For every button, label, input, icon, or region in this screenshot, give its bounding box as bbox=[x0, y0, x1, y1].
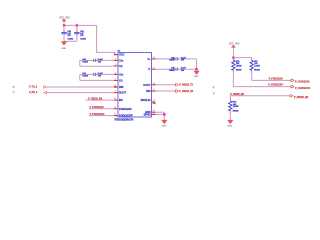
svg-text:P_RX_2: P_RX_2 bbox=[29, 92, 38, 94]
junction at C43 branch bbox=[63, 24, 65, 26]
svg-text:R70: R70 bbox=[236, 61, 239, 63]
svg-text:1/16W: 1/16W bbox=[236, 66, 242, 68]
svg-text:16V: 16V bbox=[80, 35, 84, 37]
svg-text:R0402: R0402 bbox=[233, 109, 239, 112]
svg-text:P_FORCEON: P_FORCEON bbox=[295, 82, 310, 84]
svg-text:?: ? bbox=[213, 86, 215, 89]
svg-text:GND: GND bbox=[194, 76, 199, 78]
wire ROUT to P_RX_2 bbox=[47, 91, 114, 95]
wire P_RS232_EN to EN pin bbox=[86, 98, 114, 102]
wire cap bottoms join bbox=[64, 39, 77, 43]
wire R72 to ground bbox=[228, 113, 232, 120]
capacitor C45 (V-) bbox=[156, 67, 175, 71]
svg-text:12: 12 bbox=[114, 107, 116, 109]
wire R70 lead bbox=[231, 73, 235, 87]
ground GND (right) bbox=[227, 120, 233, 124]
svg-text:16V: 16V bbox=[67, 35, 71, 37]
capacitor C41 (C2+/C2- flying cap) bbox=[96, 72, 114, 76]
wire FORCEOFF pull-up bbox=[233, 85, 291, 89]
svg-text:C43: C43 bbox=[67, 30, 70, 33]
capacitor C42 bbox=[75, 25, 79, 32]
svg-text:16: 16 bbox=[13, 86, 15, 88]
svg-text:P_RS232_EN: P_RS232_EN bbox=[294, 97, 309, 99]
svg-text:TRS3232EIRGTR: TRS3232EIRGTR bbox=[114, 118, 133, 121]
svg-text:C40: C40 bbox=[82, 58, 85, 61]
wire R71 lead bbox=[250, 73, 254, 81]
U1 DIN input arrow bbox=[115, 86, 118, 88]
op-amp U1 transceiver box bbox=[118, 53, 152, 118]
svg-text:4: 4 bbox=[153, 66, 154, 69]
svg-text:C41: C41 bbox=[82, 72, 85, 75]
ground GND (top-left) bbox=[61, 41, 67, 45]
svg-text:0.1uF: 0.1uF bbox=[181, 68, 187, 70]
svg-text:P_TX_2: P_TX_2 bbox=[29, 86, 38, 88]
svg-text:19: 19 bbox=[114, 98, 116, 100]
svg-text:C0402: C0402 bbox=[80, 38, 86, 41]
svg-text:10K: 10K bbox=[236, 63, 240, 65]
svg-text:1/16W: 1/16W bbox=[233, 106, 239, 108]
no-connect X on INVALID pin bbox=[153, 101, 156, 104]
svg-text:C42: C42 bbox=[80, 30, 83, 33]
svg-text:10K: 10K bbox=[233, 104, 237, 106]
svg-text:0.1uF: 0.1uF bbox=[181, 57, 187, 59]
svg-text:16V: 16V bbox=[98, 76, 102, 78]
U1 left pin stubs + pin numbers + labels bbox=[114, 52, 118, 56]
wire VCC_3V3 rail (top-left) bbox=[64, 23, 97, 27]
wire FORCEON pull-up bbox=[252, 78, 291, 82]
svg-text:R72: R72 bbox=[233, 102, 236, 104]
junction at C42 branch bbox=[76, 24, 78, 26]
svg-text:P_FORCEOFF: P_FORCEOFF bbox=[295, 88, 311, 90]
wire P_FORCEON to FORCEON pin bbox=[89, 107, 114, 111]
wire EPAD pin to drop bbox=[156, 112, 165, 116]
svg-text:R71: R71 bbox=[254, 61, 257, 63]
svg-text:10K: 10K bbox=[254, 63, 258, 65]
off-page connector P_RS232_EN bbox=[290, 95, 293, 97]
ground GND (V+/V- caps) bbox=[193, 71, 199, 75]
wire GND pin to drop bbox=[156, 110, 165, 114]
capacitor C44 (V+) bbox=[156, 57, 175, 61]
svg-text:16V: 16V bbox=[181, 60, 185, 62]
off-page connector P_RS232_RX bbox=[176, 90, 179, 92]
svg-text:0.1uF: 0.1uF bbox=[98, 59, 104, 61]
ground GND (U1) bbox=[161, 120, 167, 124]
svg-text:GND: GND bbox=[61, 48, 66, 50]
svg-text:9: 9 bbox=[115, 91, 116, 93]
svg-text:16V: 16V bbox=[181, 70, 185, 72]
svg-text:VCC_3V3: VCC_3V3 bbox=[229, 43, 240, 46]
wire DOUT out bbox=[156, 83, 176, 87]
svg-text:14: 14 bbox=[153, 82, 155, 85]
svg-text:13: 13 bbox=[114, 114, 116, 116]
capacitor C40 (C1+/C1- flying cap) bbox=[96, 58, 114, 62]
svg-text:15: 15 bbox=[153, 57, 155, 59]
wire GND drop down bbox=[162, 112, 166, 120]
svg-text:P_RS232_TX: P_RS232_TX bbox=[179, 85, 193, 87]
svg-text:17: 17 bbox=[13, 92, 15, 94]
svg-text:1/16W: 1/16W bbox=[254, 66, 260, 68]
svg-text:16V: 16V bbox=[98, 62, 102, 64]
off-page connector P_FORCEON bbox=[291, 79, 294, 81]
svg-text:C0402: C0402 bbox=[67, 38, 73, 41]
svg-text:R0402: R0402 bbox=[254, 69, 260, 72]
junction at pull-up rail bbox=[232, 56, 234, 58]
off-page connector P_RS232_TX bbox=[176, 84, 179, 86]
capacitor C43 bbox=[62, 25, 66, 32]
wire pull-up rail bbox=[233, 56, 251, 60]
wire VCC rail to U1 VCC pin bbox=[97, 25, 118, 54]
wire V+ cap down to V- cap bbox=[195, 59, 199, 71]
svg-text:GND: GND bbox=[162, 126, 167, 128]
wire P_FORCEOFF to FORCEOFF pin bbox=[89, 114, 114, 118]
svg-text:16: 16 bbox=[153, 110, 155, 112]
wire P_RS232_EN row bbox=[230, 94, 290, 98]
svg-text:0.1uF: 0.1uF bbox=[98, 73, 104, 75]
resistor R70 bbox=[232, 58, 236, 61]
svg-text:5: 5 bbox=[115, 64, 116, 66]
wire RIN in bbox=[156, 89, 176, 93]
svg-text:GND: GND bbox=[228, 126, 233, 128]
svg-text:7: 7 bbox=[115, 78, 116, 80]
svg-text:8: 8 bbox=[153, 89, 154, 91]
junction at EPAD join bbox=[163, 113, 165, 115]
svg-text:6: 6 bbox=[115, 72, 116, 74]
wire P_TX_2 to DIN bbox=[47, 85, 114, 89]
U1 right pin stubs + pin numbers + labels bbox=[152, 57, 156, 61]
svg-text:C45: C45 bbox=[171, 67, 174, 70]
svg-text:?: ? bbox=[213, 92, 215, 95]
svg-text:3: 3 bbox=[115, 58, 116, 60]
resistor R72 bbox=[229, 98, 233, 101]
resistor R71 bbox=[250, 58, 254, 61]
wire EN drop to R72 bbox=[228, 96, 232, 99]
svg-text:R0402: R0402 bbox=[236, 69, 242, 72]
off-page connector P_FORCEOFF bbox=[291, 85, 294, 87]
svg-text:P_RS232_RX: P_RS232_RX bbox=[179, 91, 193, 93]
junction at V- cap / GND drop bbox=[195, 68, 197, 70]
